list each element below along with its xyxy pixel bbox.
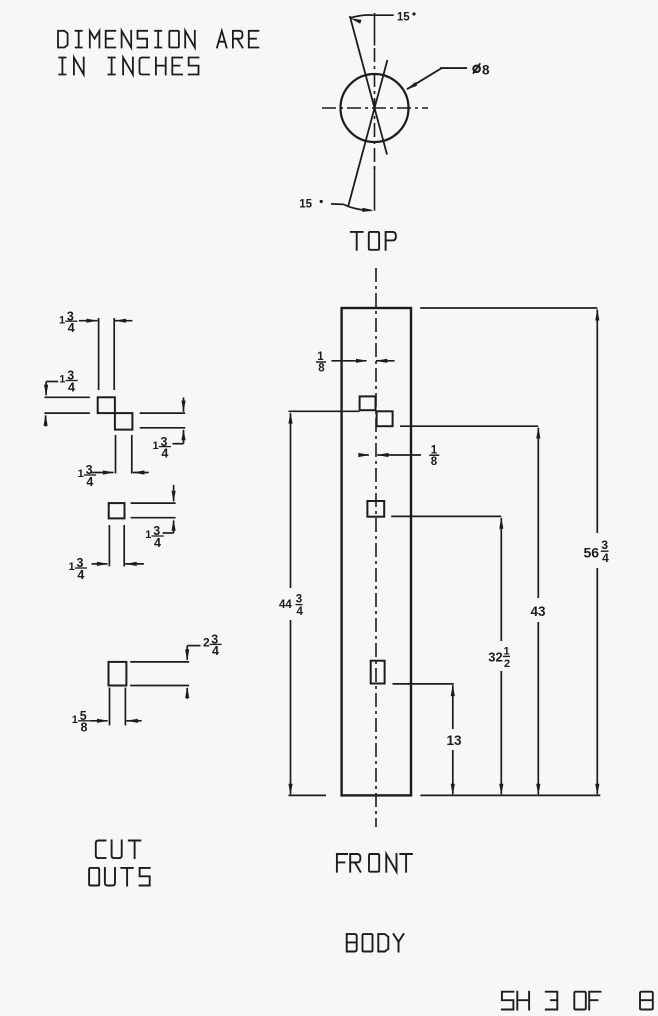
extension line from S1 bottom edge (left) bbox=[289, 410, 360, 412]
label 43 bbox=[531, 604, 547, 619]
svg-text:8: 8 bbox=[482, 63, 490, 78]
dim 1/8 (upper): line and opposing arrows bbox=[332, 359, 395, 363]
detail1 extension lines right from square B bbox=[140, 413, 186, 428]
svg-text:2: 2 bbox=[504, 658, 510, 670]
caption OUTS bbox=[89, 868, 150, 886]
detail3 extension lines right bbox=[130, 662, 189, 686]
svg-text:4: 4 bbox=[68, 321, 75, 335]
label 15 deg (top) bbox=[397, 12, 416, 24]
detail1 left up arrow bbox=[44, 414, 48, 426]
cutout square S2 (lower right of centerline) bbox=[377, 411, 393, 426]
top view: circle (body O.D.) bbox=[341, 74, 409, 142]
svg-text:1: 1 bbox=[59, 314, 65, 326]
detail1 extension lines left from square A bbox=[44, 397, 90, 413]
detail1 extension lines up from square A bbox=[99, 318, 115, 390]
svg-text:1: 1 bbox=[78, 468, 84, 480]
detail2 extension lines down bbox=[109, 525, 124, 566]
top view: vertical extension line (bottom) bbox=[374, 166, 376, 211]
caption FRONT bbox=[337, 854, 412, 872]
extension line from body top edge bbox=[420, 307, 597, 309]
svg-text:8: 8 bbox=[431, 456, 438, 468]
dim 13 vertical line with arrows bbox=[451, 685, 455, 796]
detail1 label 1 3/4 (top) bbox=[59, 309, 77, 335]
svg-text:4: 4 bbox=[154, 536, 161, 550]
detail2 right down arrow bbox=[172, 485, 176, 502]
baseline (bottom datum) right segment bbox=[420, 794, 600, 796]
detail3 label 2 3/4 bbox=[203, 633, 222, 659]
svg-text:4: 4 bbox=[296, 606, 303, 618]
detail1 label 1 3/4 (bottom) bbox=[78, 463, 96, 489]
label 44 3/4 bbox=[279, 594, 303, 619]
cutout slot R4 (lower, tall) bbox=[371, 661, 385, 684]
label 1/8 (upper) bbox=[316, 351, 326, 374]
svg-text:4: 4 bbox=[86, 475, 93, 489]
svg-text:43: 43 bbox=[531, 604, 547, 619]
label 56 3/4 bbox=[584, 538, 610, 565]
svg-text:2: 2 bbox=[203, 636, 210, 650]
svg-text:3: 3 bbox=[601, 538, 608, 552]
svg-text:1: 1 bbox=[69, 561, 75, 573]
front view: body outline rectangle bbox=[342, 308, 411, 795]
top view: angle dim arc (bottom) with arrowhead bbox=[331, 204, 374, 212]
top view: vertical extension line (top) bbox=[374, 13, 376, 46]
detail3 right up arrow bbox=[185, 687, 189, 699]
detail3 slot rectangle bbox=[109, 662, 127, 686]
svg-text:4: 4 bbox=[68, 380, 75, 394]
svg-text:4: 4 bbox=[212, 644, 219, 658]
svg-text:8: 8 bbox=[318, 363, 325, 375]
detail1 label 1 3/4 (right) bbox=[153, 435, 171, 461]
svg-text:1: 1 bbox=[153, 440, 159, 452]
extension line from S3 bottom edge bbox=[391, 515, 501, 517]
caption CUT bbox=[96, 841, 141, 859]
extension line from R4 bottom edge bbox=[393, 683, 454, 685]
label 15 deg (bottom) bbox=[299, 199, 323, 211]
label 13 bbox=[447, 733, 463, 748]
detail3 bottom dim arrows bbox=[90, 719, 141, 723]
top view: angle dim arc (top) with arrowhead bbox=[350, 15, 394, 24]
svg-text:4: 4 bbox=[77, 568, 84, 582]
label 32 1/2 bbox=[488, 646, 510, 670]
top view: horizontal centerline bbox=[322, 107, 428, 109]
svg-text:4: 4 bbox=[602, 551, 609, 565]
detail2 square bbox=[109, 503, 125, 518]
detail3 extension lines down bbox=[110, 688, 126, 726]
svg-text:1: 1 bbox=[72, 714, 78, 726]
cutout square S3 (middle) bbox=[367, 501, 384, 517]
caption TOP bbox=[351, 232, 396, 250]
sheet number SH 3 OF 8 bbox=[502, 992, 653, 1010]
detail1 square B bbox=[115, 413, 132, 430]
dim 44-3/4 vertical line with arrows bbox=[288, 412, 292, 795]
dim 32-1/2 vertical line with arrows bbox=[499, 517, 503, 795]
svg-text:56: 56 bbox=[584, 545, 600, 561]
detail1 extension lines down from square B bbox=[116, 435, 132, 474]
svg-text:44: 44 bbox=[279, 599, 292, 611]
detail1 right up arrow with bracket bbox=[173, 429, 186, 444]
detail1 top dim arrows (1-3/4 wide) bbox=[79, 319, 132, 323]
extension line from S2 bottom edge (right) bbox=[400, 425, 538, 427]
cutout square S1 (upper left of centerline) bbox=[360, 396, 376, 410]
top view: vertical centerline bbox=[374, 48, 376, 170]
caption BODY bbox=[347, 934, 404, 951]
dim 56-3/4 vertical line with arrows bbox=[595, 309, 599, 795]
detail1 bottom dim arrows bbox=[92, 470, 149, 474]
svg-text:13: 13 bbox=[447, 733, 463, 748]
detail2 label 1 3/4 (bottom) bbox=[69, 556, 87, 582]
detail2 label 1 3/4 (right) bbox=[145, 524, 163, 550]
top view: 15-deg slot line (upper-right to lower-left) bbox=[348, 60, 387, 207]
detail2 extension lines right bbox=[131, 503, 176, 518]
svg-text:1: 1 bbox=[59, 374, 65, 386]
detail2 bottom dim arrows bbox=[92, 562, 144, 566]
svg-text:3: 3 bbox=[296, 594, 302, 606]
svg-text:15: 15 bbox=[299, 199, 312, 211]
label 1/8 (lower) bbox=[429, 444, 439, 467]
note: DIMENSION ARE bbox=[58, 31, 258, 48]
svg-text:32: 32 bbox=[488, 650, 502, 665]
svg-text:4: 4 bbox=[161, 446, 168, 460]
leader line for dia 8 bbox=[406, 68, 467, 90]
baseline (bottom datum) left segment bbox=[289, 794, 327, 796]
front view: vertical centerline bbox=[375, 268, 377, 827]
detail2 right up arrow with bracket bbox=[163, 519, 176, 533]
detail3 label 1 5/8 bbox=[72, 709, 90, 735]
detail1 right down arrow bbox=[181, 398, 185, 413]
top view: 15-deg slot line (upper-left to lower-right) bbox=[350, 16, 387, 155]
detail3 right down arrow with bracket bbox=[185, 646, 200, 661]
detail1 left dim bracket and down arrow bbox=[44, 382, 58, 397]
dim 43 vertical line with arrows bbox=[536, 427, 540, 795]
svg-text:1: 1 bbox=[145, 529, 151, 541]
note: IN INCHES bbox=[59, 58, 198, 75]
svg-text:15: 15 bbox=[397, 12, 410, 24]
detail1 label 1 3/4 (left) bbox=[59, 369, 77, 395]
label dia 8 bbox=[473, 63, 490, 78]
detail1 square A bbox=[98, 397, 115, 413]
dim 1/8 (lower): line and opposing arrows bbox=[358, 453, 421, 457]
svg-text:8: 8 bbox=[81, 721, 88, 735]
